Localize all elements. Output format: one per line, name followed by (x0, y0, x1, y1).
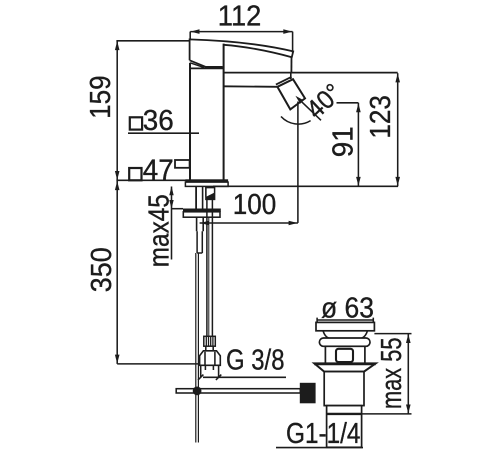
dim 159 line (116, 41, 118, 181)
hose bend flag (206, 188, 215, 200)
nut bottom tube (205, 365, 213, 370)
aerator face outer line (276, 77, 292, 85)
shank mid line (202, 186, 204, 208)
base plate (185, 182, 228, 186)
nut facets (205, 352, 215, 366)
G3/8 ext lines (201, 365, 219, 378)
body top edge (190, 67, 224, 69)
G3/8 label line (203, 376, 286, 378)
max55 arrows (406, 334, 411, 343)
dim 91 line (357, 103, 359, 187)
body right edge / spout back (223, 44, 225, 180)
shank left line (195, 186, 197, 208)
ext base bottom right (213, 185, 398, 187)
max55 bottom ext (362, 413, 412, 415)
ferrule neck (206, 346, 213, 351)
dim 112 arrows (191, 29, 200, 34)
dim max55 line (407, 334, 409, 414)
G1-1/4 underline (276, 447, 363, 449)
dim 350 line (116, 181, 118, 364)
dim 91 ext top (337, 102, 359, 104)
max45 arrows (169, 186, 173, 195)
flange neck right (362, 331, 368, 338)
spout tip front edge (290, 57, 292, 73)
dim o63 line (317, 319, 373, 321)
dim 159 ext top (116, 40, 190, 42)
91 arrows (356, 103, 361, 112)
dim 350 arrows (115, 181, 120, 190)
lever gap sliver (190, 63, 204, 68)
svg-text:100: 100 (233, 189, 276, 221)
body left edge (189, 63, 191, 180)
dim 123 line (397, 73, 399, 186)
shank right line (205, 186, 207, 196)
drain lower body (324, 372, 364, 406)
svg-text:G 3/8: G 3/8 (226, 345, 285, 377)
svg-text:350: 350 (86, 247, 118, 292)
lower nut dark band (183, 209, 221, 212)
drain flange (316, 322, 374, 330)
square symbol 47 (129, 168, 141, 180)
upper ring (319, 338, 370, 346)
aerator stub (290, 73, 292, 79)
hose inner line (208, 217, 210, 336)
svg-text:max45: max45 (144, 194, 176, 267)
pop-up rod (196, 253, 199, 443)
123 arrows (395, 73, 400, 82)
pivot bar (176, 389, 300, 393)
G3/8 nut (200, 351, 221, 366)
dim 112 ext left (189, 32, 191, 40)
svg-text:123: 123 (365, 95, 397, 139)
hose bend diagonal (206, 193, 215, 200)
lever underside (190, 60, 223, 67)
dim max45 line (171, 187, 173, 260)
square symbol 36 (130, 117, 142, 129)
lower nut washer (183, 212, 220, 217)
dim 112 ext right (292, 32, 294, 53)
svg-text:112: 112 (218, 0, 261, 32)
svg-text:91: 91 (327, 126, 359, 157)
40 deg leader (298, 99, 321, 121)
svg-text:max 55: max 55 (376, 338, 408, 410)
ferrule ridges (206, 336, 213, 346)
aerator square (277, 79, 305, 109)
pivot dot (193, 387, 202, 396)
tube B (197, 231, 202, 253)
svg-text:G1-1/4: G1-1/4 (286, 418, 361, 450)
hose (207, 199, 213, 336)
body bottom band (185, 179, 228, 182)
ext 350 bottom (117, 363, 199, 365)
svg-text:ø 63: ø 63 (321, 292, 374, 324)
40 deg leader arrow (295, 96, 303, 104)
100 arrows (200, 221, 209, 225)
dim 100 line (200, 222, 298, 224)
svg-text:47: 47 (143, 155, 174, 187)
underline 36 (128, 132, 199, 134)
tube A (197, 217, 204, 231)
drain upper body (325, 346, 365, 363)
dim 159 arrows (115, 41, 120, 50)
o63 end ticks (317, 318, 373, 323)
G3/8 ticks (198, 375, 221, 380)
hose ferrule (204, 336, 216, 346)
dim 112 line (190, 31, 292, 33)
square hole (336, 349, 353, 362)
40 deg arc (281, 117, 311, 125)
drain valve knob (300, 383, 316, 404)
flange neck left (323, 331, 329, 338)
40 deg vertical reference (297, 102, 299, 223)
body tab (175, 160, 190, 168)
svg-text:159: 159 (85, 75, 117, 119)
spout housing bottom (224, 85, 278, 88)
tail pipe (327, 406, 362, 448)
ext base bottom left (116, 179, 185, 181)
seal washer (314, 363, 375, 371)
max55 top ext (374, 333, 411, 335)
svg-text:36: 36 (143, 105, 174, 137)
max45 lower ext (172, 208, 184, 210)
max55 band on pipe (327, 413, 362, 415)
spout underside + ext to 123 dim (224, 72, 398, 74)
lever handle blade (190, 39, 294, 60)
